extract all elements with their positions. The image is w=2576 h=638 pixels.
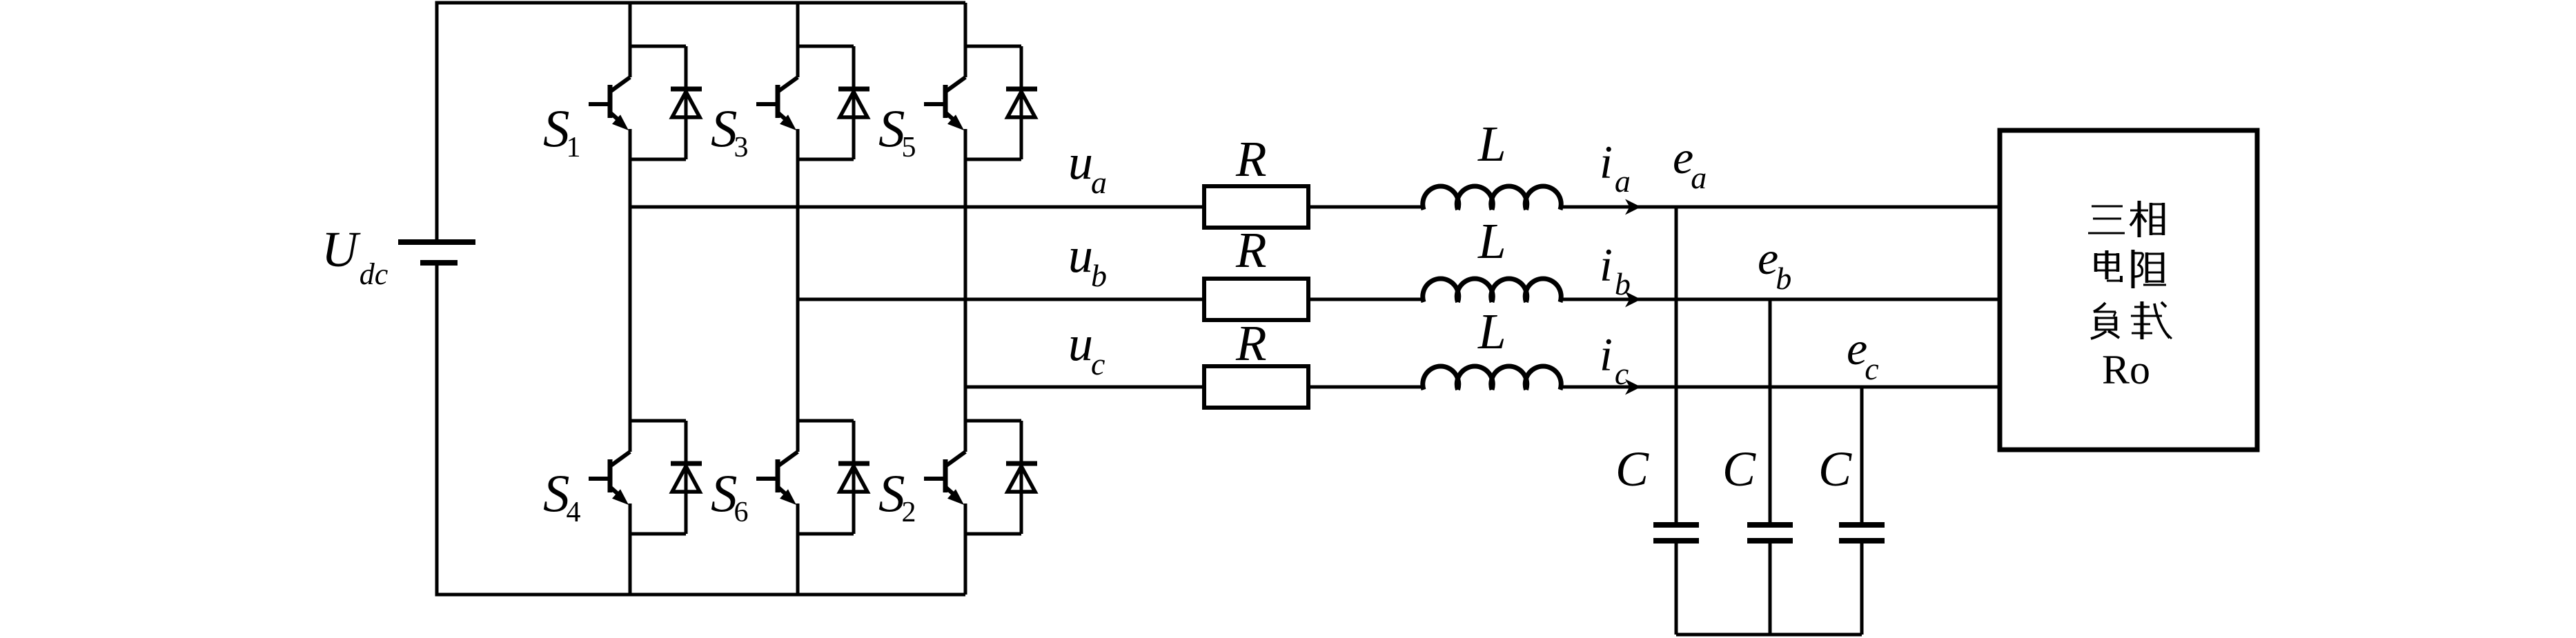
svg-text:R: R (1235, 222, 1267, 278)
svg-text:L: L (1477, 213, 1506, 269)
inductor L (phase c) (1423, 366, 1562, 390)
wire: phase b inductor to load (1560, 298, 2000, 301)
wire: capacitor branch a lower (1675, 544, 1678, 635)
resistor R (phase b) (1204, 279, 1308, 320)
diode antiparallel with S4 (671, 421, 702, 534)
capacitor C (phase c) (1839, 522, 1885, 528)
wire: phase c output from inverter leg to filter resistor (965, 386, 1204, 389)
svg-text:uc: uc (1068, 316, 1105, 381)
svg-text:eb: eb (1758, 232, 1791, 296)
battery Udc negative (short) plate (420, 260, 458, 266)
svg-text:ec: ec (1847, 322, 1879, 386)
node eb: wire capacitor branch b upper (1769, 299, 1772, 522)
node ea: wire capacitor branch a upper (1675, 207, 1678, 522)
svg-text:Ro: Ro (2102, 347, 2150, 392)
transistor S4 (IGT switch) (589, 421, 686, 534)
arrow: current direction ia (1625, 199, 1641, 215)
svg-text:C: C (1615, 441, 1649, 497)
wire: inverter leg A upper segment (629, 3, 632, 77)
svg-text:ia: ia (1600, 136, 1631, 199)
label chinese char 三 (2088, 206, 2125, 233)
svg-text:C: C (1818, 441, 1852, 497)
resistor R (phase c) (1204, 366, 1308, 408)
wire: capacitor neutral bus (1676, 633, 1862, 637)
battery Udc positive (long) plate (398, 239, 475, 245)
arrow: current direction ic (1625, 379, 1641, 395)
svg-text:S4: S4 (543, 463, 581, 528)
wire: inverter leg A lower segment (629, 504, 632, 595)
svg-text:S1: S1 (543, 99, 581, 163)
wire: inverter leg B lower segment (796, 504, 800, 595)
wire: capacitor branch b lower (1769, 544, 1772, 635)
wire: phase b resistor to inductor (1308, 298, 1424, 301)
diode antiparallel with S2 (1006, 421, 1037, 534)
transistor S3 (IGT switch) (756, 46, 854, 159)
svg-text:C: C (1722, 441, 1756, 497)
wire: inverter leg C upper segment (964, 3, 967, 77)
wire: inverter leg B middle segment (796, 129, 800, 452)
wire: phase a resistor to inductor (1308, 206, 1424, 209)
resistor R (phase a) (1204, 186, 1308, 228)
capacitor C (phase a) (1653, 522, 1699, 528)
wire: top DC rail (435, 1, 966, 5)
label chinese char 负 (2091, 303, 2119, 339)
wire: phase a inductor to load (1560, 206, 2000, 209)
wire: bottom DC rail (435, 593, 966, 597)
node ec: wire capacitor branch c upper (1860, 387, 1864, 522)
svg-text:ua: ua (1068, 134, 1107, 200)
wire: phase a output from inverter leg to filter resistor (630, 206, 1204, 209)
svg-text:S6: S6 (711, 463, 749, 528)
label chinese char 电 (2094, 250, 2121, 282)
svg-text:ea: ea (1673, 131, 1707, 195)
svg-text:ib: ib (1600, 239, 1631, 301)
capacitor C (phase b) (1747, 522, 1793, 528)
svg-text:R: R (1235, 315, 1267, 371)
wire: phase c inductor to load (1560, 386, 2000, 389)
wire: inverter leg A middle segment (629, 129, 632, 452)
svg-text:R: R (1235, 131, 1267, 187)
svg-text:L: L (1477, 116, 1506, 172)
wire: inverter leg C middle segment (964, 129, 967, 452)
transistor S6 (IGT switch) (756, 421, 854, 534)
diode antiparallel with S1 (671, 46, 702, 159)
wire: inverter leg C lower segment (964, 504, 967, 595)
label chinese char 载 (2131, 301, 2172, 339)
wire: battery positive lead (435, 1, 439, 243)
inductor L (phase a) (1423, 186, 1562, 210)
transistor S1 (IGT switch) (589, 46, 686, 159)
label chinese char 相 (2130, 201, 2165, 237)
inductor L (phase b) (1423, 279, 1562, 302)
transistor S5 (IGT switch) (924, 46, 1021, 159)
wire: phase b output from inverter leg to filter resistor (798, 298, 1204, 301)
svg-text:S3: S3 (711, 99, 749, 163)
wire: capacitor branch c lower (1860, 544, 1864, 635)
diode antiparallel with S5 (1006, 46, 1037, 159)
svg-text:S5: S5 (878, 99, 916, 163)
wire: inverter leg B upper segment (796, 3, 800, 77)
transistor S2 (IGT switch) (924, 421, 1021, 534)
arrow: current direction ib (1625, 292, 1641, 308)
diode antiparallel with S6 (838, 421, 869, 534)
svg-text:Udc: Udc (322, 221, 389, 291)
wire: battery negative lead (435, 263, 439, 597)
svg-text:ub: ub (1068, 228, 1107, 293)
wire: phase c resistor to inductor (1308, 386, 1424, 389)
svg-text:L: L (1477, 303, 1506, 359)
svg-text:ic: ic (1600, 328, 1629, 391)
load box: three-phase resistive load Ro (2000, 130, 2257, 450)
diode antiparallel with S3 (838, 46, 869, 159)
label chinese char 阻 (2133, 250, 2166, 288)
svg-text:S2: S2 (878, 463, 916, 528)
